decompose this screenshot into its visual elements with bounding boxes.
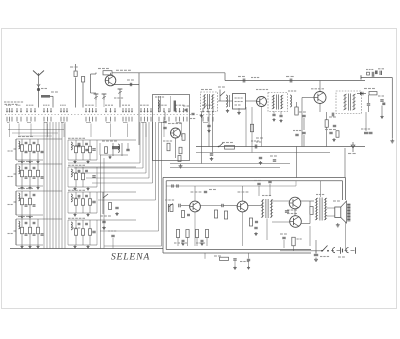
- svg-text:SELENA: SELENA: [111, 251, 150, 262]
